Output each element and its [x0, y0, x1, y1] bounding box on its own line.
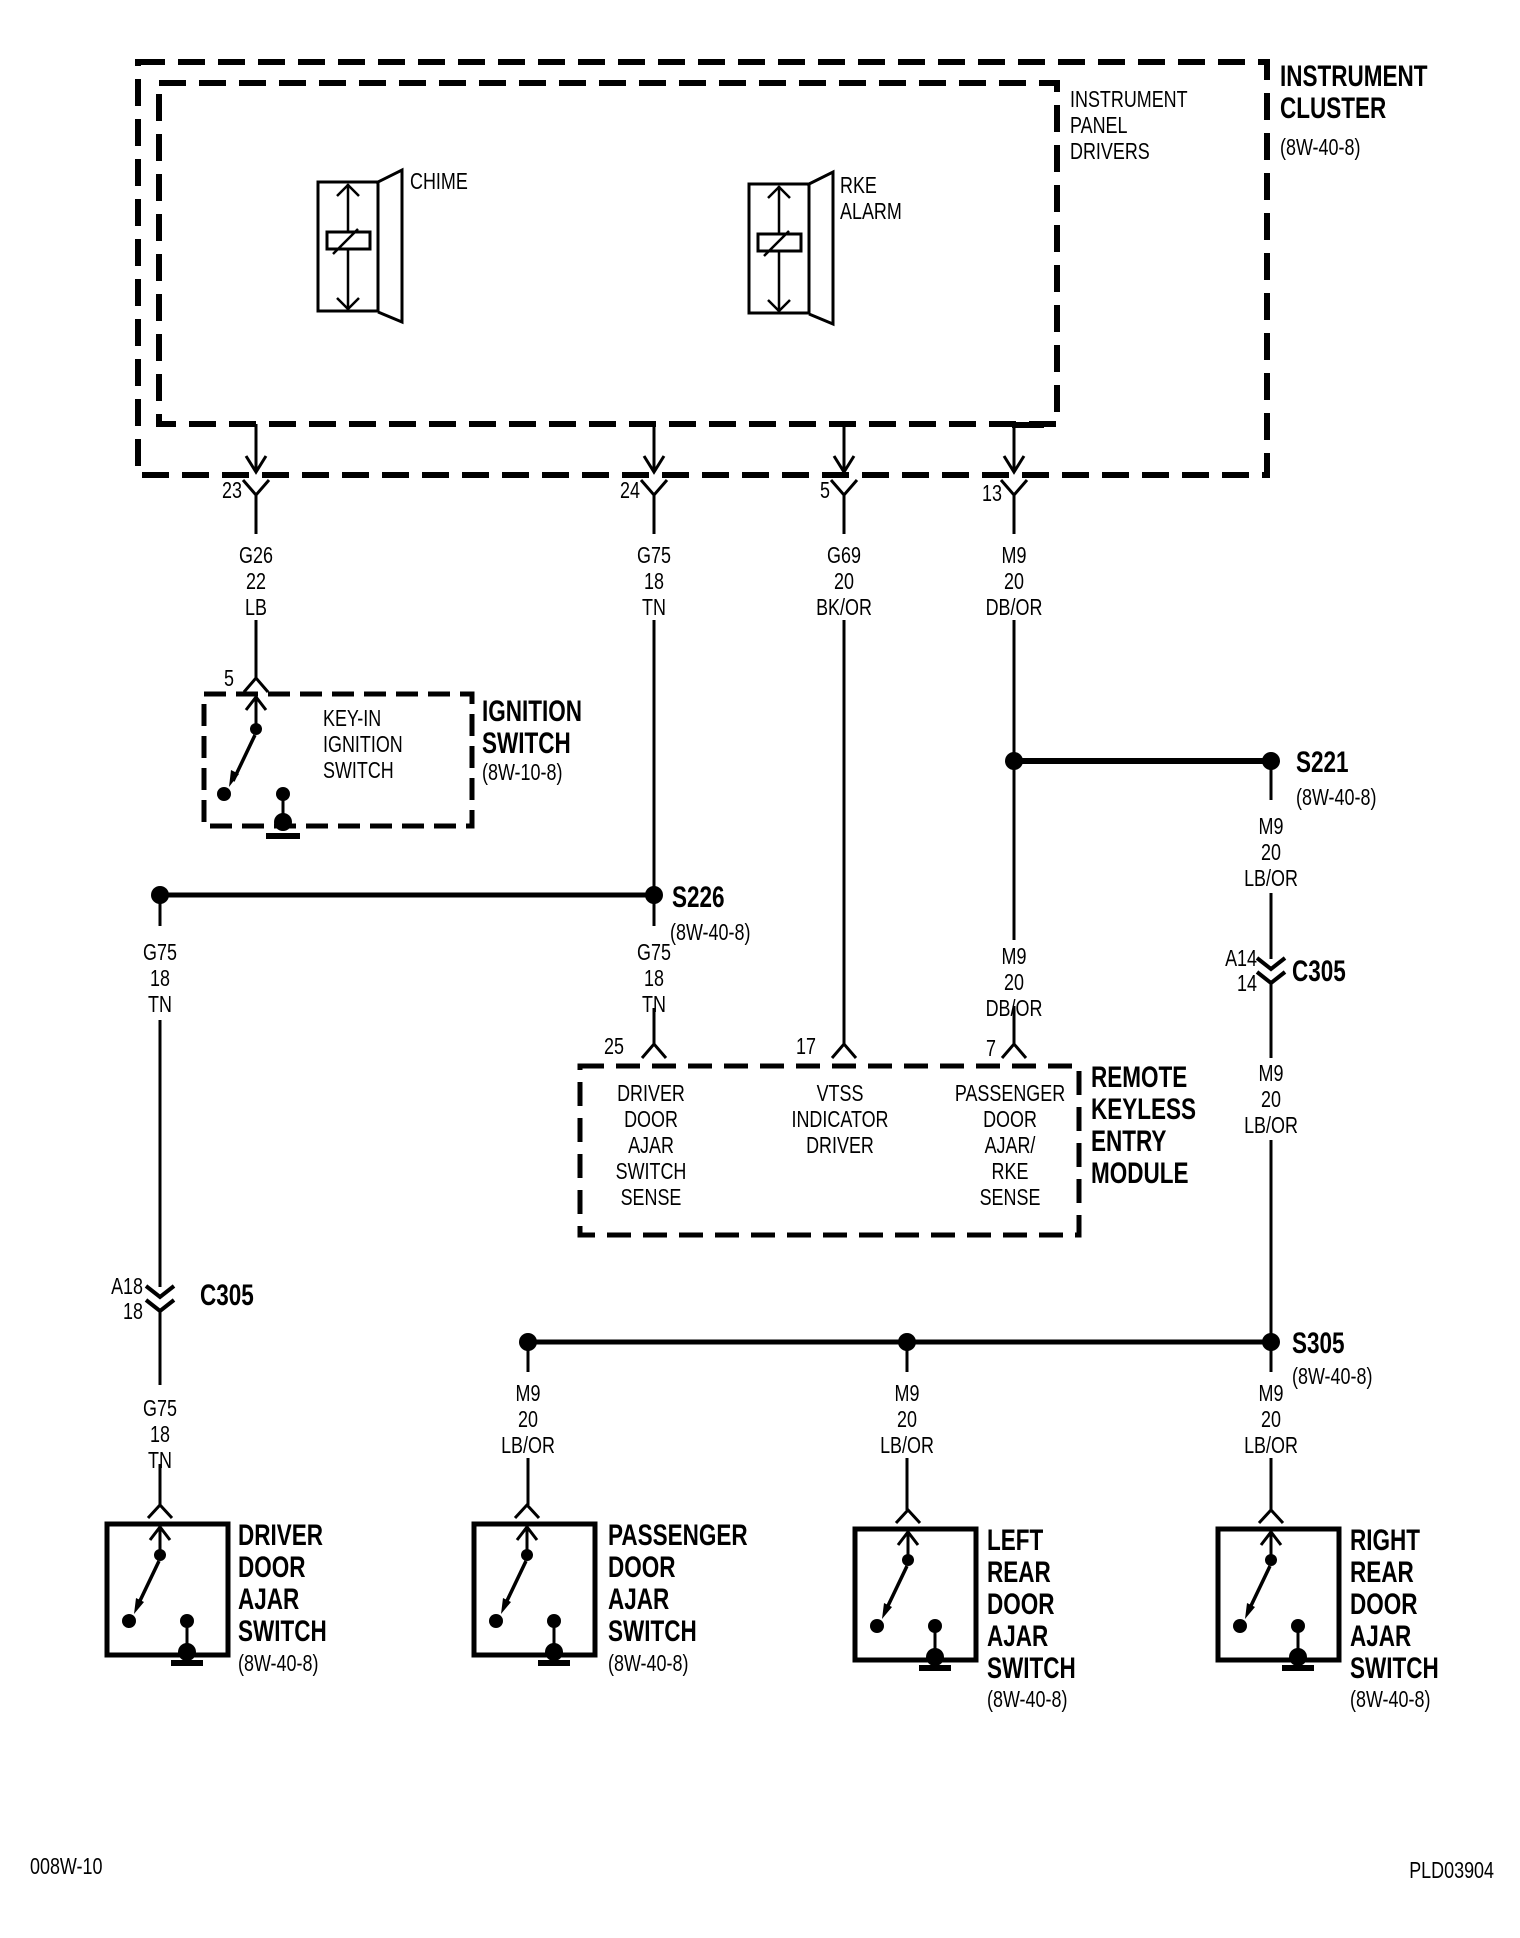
label S226 [672, 882, 725, 914]
wire G75 left column to C305 [159, 1020, 162, 1287]
wire M9 to right rear door ajar switch [1270, 1458, 1273, 1510]
RKE alarm sounder (speaker symbol) [749, 172, 833, 324]
label CHIME [410, 168, 468, 194]
passenger door ajar switch [474, 1505, 595, 1663]
label RIGHT REAR DOOR AJAR SWITCH [1350, 1525, 1439, 1685]
label (8W-10-8) [482, 759, 562, 785]
wire label M9 20 LB/OR upper right [1244, 813, 1298, 891]
pin number 5 cluster [820, 477, 830, 503]
pin 25 male connector [642, 1044, 666, 1058]
wire label M9 20 LB/OR passenger [501, 1380, 555, 1458]
wire label M9 20 DB/OR [986, 542, 1043, 620]
wire M9 down to splice S305 [1270, 1140, 1273, 1342]
label KEY-IN IGNITION SWITCH [323, 705, 403, 783]
wire label M9 20 DB/OR lower [986, 943, 1043, 1021]
label (8W-40-8) instrument cluster [1280, 134, 1360, 160]
wire label G69 20 BK/OR [816, 542, 872, 620]
pin number 13 [982, 480, 1002, 506]
pin number 7 [986, 1035, 996, 1061]
chime sounder (speaker symbol) [318, 170, 402, 322]
label DRIVER DOOR AJAR SWITCH [238, 1520, 327, 1648]
splice S226 horizontal wire with junction dots [151, 886, 663, 904]
label C305 left [200, 1280, 254, 1312]
label (8W-40-8) passenger switch [608, 1650, 688, 1676]
label (8W-40-8) driver switch [238, 1650, 318, 1676]
right rear door ajar switch [1218, 1510, 1339, 1668]
wire M9 below C305 right [1270, 983, 1273, 1058]
wire exit pin 24 with connector [641, 424, 667, 534]
wire stub below S305 dot passenger [527, 1350, 530, 1372]
label REMOTE KEYLESS ENTRY MODULE [1091, 1062, 1196, 1190]
wire exit pin 23 with connector [243, 424, 269, 534]
wire label G26 22 LB [239, 542, 273, 620]
module pin label PASSENGER DOOR AJAR/RKE SENSE [955, 1080, 1065, 1210]
splice S221 horizontal wire with junction dots [1005, 752, 1280, 770]
module pin label DRIVER DOOR AJAR SWITCH SENSE [616, 1080, 687, 1210]
wire stub below S221 right dot [1270, 769, 1273, 800]
label INSTRUMENT PANEL DRIVERS [1070, 86, 1188, 164]
wire M9 down to connector C305 right [1270, 893, 1273, 959]
pin label A14 [1225, 945, 1257, 971]
ignition switch ground bar [266, 833, 300, 839]
wire stub below S305 dot right rear [1270, 1350, 1273, 1372]
wire M9 to left rear door ajar switch [906, 1458, 909, 1510]
wire label G75 18 TN bottom left [143, 1395, 177, 1473]
wire G75 pin 24 to S226 [653, 620, 656, 891]
label IGNITION SWITCH bold [482, 696, 582, 760]
wire stub below S305 dot left rear [906, 1350, 909, 1372]
pin number 5 ignition [224, 665, 234, 691]
label (8W-40-8) S226 [670, 919, 750, 945]
label (8W-40-8) left rear switch [987, 1686, 1067, 1712]
wire G26 to key-in ignition switch [255, 620, 258, 678]
wire label G75 18 TN left column [143, 939, 177, 1017]
wire exit pin 13 with connector [1001, 424, 1027, 534]
wire label G75 18 TN [637, 542, 671, 620]
wire M9 to passenger door ajar switch [527, 1458, 530, 1505]
label C305 right [1292, 956, 1346, 988]
pin 17 male connector [832, 1044, 856, 1058]
wire label M9 20 LB/OR left rear [880, 1380, 934, 1458]
remote keyless entry module dashed box [580, 1066, 1079, 1235]
connector C305 right (double chevron) [1257, 958, 1285, 983]
pin label 14 [1237, 970, 1257, 996]
key-in ignition switch contacts [217, 697, 292, 831]
pin number 23 [222, 477, 242, 503]
wire G75 to driver door ajar switch [159, 1464, 162, 1505]
label (8W-40-8) right rear switch [1350, 1686, 1430, 1712]
pin 7 male connector [1002, 1044, 1026, 1058]
wire label M9 20 LB/OR below C305 [1244, 1060, 1298, 1138]
instrument panel drivers inner dashed box [159, 83, 1057, 424]
wire G75 below C305 left [159, 1311, 162, 1385]
wire label G75 18 TN below S226 [637, 939, 671, 1017]
label INSTRUMENT CLUSTER [1280, 61, 1427, 125]
connector C305 left (double chevron) [146, 1286, 174, 1311]
label PASSENGER DOOR AJAR SWITCH [608, 1520, 748, 1648]
pin 5 male connector at ignition switch [244, 678, 268, 692]
wire jog at pin 13 inside cluster [1012, 422, 1044, 428]
splice S305 horizontal wire with junction dots [519, 1333, 1280, 1351]
wire stub below S226 dot [653, 903, 656, 926]
wire stub below S226 left dot [159, 903, 162, 926]
label S305 [1292, 1328, 1345, 1360]
label (8W-40-8) S305 [1292, 1363, 1372, 1389]
wire M9 below S221 to labels [1013, 769, 1016, 940]
wire M9 pin 13 to S221 [1013, 620, 1016, 761]
left rear door ajar switch [855, 1510, 976, 1668]
wire G69 to RKE pin 17 [843, 620, 846, 1044]
wire label M9 20 LB/OR right rear [1244, 1380, 1298, 1458]
label S221 [1296, 747, 1349, 779]
pin label 18 [123, 1298, 143, 1324]
drawing number PLD03904 [1409, 1857, 1494, 1883]
wire M9 to RKE pin 7 [1013, 1006, 1016, 1044]
module pin label VTSS INDICATOR DRIVER [791, 1080, 888, 1158]
ignition switch dashed box [204, 694, 472, 826]
label (8W-40-8) S221 [1296, 784, 1376, 810]
label RKE ALARM [840, 172, 902, 224]
pin label A18 [111, 1273, 143, 1299]
pin number 25 [604, 1033, 624, 1059]
label LEFT REAR DOOR AJAR SWITCH [987, 1525, 1076, 1685]
pin number 17 [796, 1033, 816, 1059]
driver door ajar switch [107, 1505, 228, 1663]
wire G75 to RKE pin 25 [653, 1008, 656, 1044]
page number 008W-10 [30, 1853, 102, 1879]
pin number 24 [620, 477, 640, 503]
wire exit pin 5 with connector [831, 424, 857, 534]
instrument cluster outer dashed box [138, 62, 1267, 475]
